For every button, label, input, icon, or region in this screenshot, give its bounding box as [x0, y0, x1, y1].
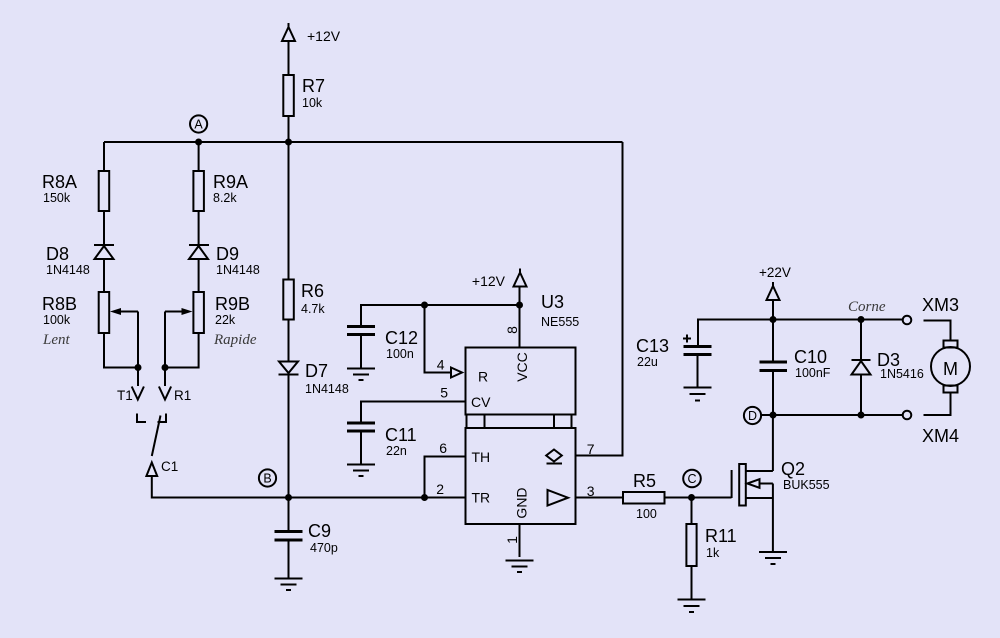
svg-text:D8: D8 — [46, 244, 69, 264]
power +12V (top, above R7) — [282, 23, 341, 44]
resistor R7 10k — [283, 75, 325, 116]
U3 lower body — [466, 428, 576, 524]
svg-text:VCC: VCC — [514, 352, 530, 382]
wire R8B wiper down — [137, 312, 139, 368]
svg-text:B: B — [263, 472, 271, 486]
wire +12V to R7 — [288, 41, 290, 75]
svg-text:8.2k: 8.2k — [213, 191, 237, 205]
wire to T1 — [137, 368, 139, 387]
svg-text:100nF: 100nF — [795, 366, 831, 380]
wire R9A to D9 — [198, 211, 200, 245]
terminal XM3 — [903, 295, 959, 324]
svg-text:Q2: Q2 — [781, 459, 805, 479]
wire pin5 CV — [361, 402, 466, 423]
wire pin3 to R5 — [576, 497, 624, 499]
terminal XM4 — [903, 411, 959, 446]
node D — [744, 407, 761, 424]
op-amp U3 NE555 upper body — [466, 292, 580, 415]
pin 4 arrow — [451, 368, 462, 378]
svg-text:D9: D9 — [216, 244, 239, 264]
connector T1 — [117, 387, 144, 404]
transistor Q2 BUK555 — [732, 459, 830, 506]
svg-text:2: 2 — [436, 481, 444, 497]
wire R8A to D8 — [103, 211, 105, 245]
svg-text:R6: R6 — [301, 281, 324, 301]
svg-text:R7: R7 — [302, 76, 325, 96]
junction (TH to TR) — [421, 494, 428, 501]
wire rail to R6 — [288, 142, 290, 280]
svg-text:1N4148: 1N4148 — [305, 382, 349, 396]
svg-text:T1: T1 — [117, 388, 133, 403]
svg-text:100k: 100k — [43, 313, 71, 327]
wire pin8 VCC — [519, 287, 521, 348]
svg-text:D: D — [748, 409, 757, 423]
junction (D3 bottom) — [858, 412, 865, 419]
svg-text:1k: 1k — [706, 546, 720, 560]
U3 output triangle — [548, 490, 569, 506]
svg-text:TH: TH — [472, 449, 491, 465]
power +12V (U3) — [472, 269, 527, 290]
svg-text:1N4148: 1N4148 — [46, 263, 90, 277]
diode D8 1N4148 — [46, 244, 114, 277]
svg-text:U3: U3 — [541, 292, 564, 312]
ground (C12) — [347, 369, 375, 381]
svg-text:R9B: R9B — [215, 294, 250, 314]
wire motor to XM4 — [924, 393, 951, 416]
potentiometer R9B 22k Rapide — [165, 292, 257, 348]
connector C1 — [146, 459, 178, 476]
junction (VCC) — [516, 302, 523, 309]
wire rail to R8A — [103, 142, 105, 171]
svg-text:100: 100 — [636, 507, 657, 521]
svg-text:22u: 22u — [637, 355, 658, 369]
junction (node A rail) — [195, 139, 202, 146]
junction (Q2 drain) — [770, 412, 777, 419]
switch C1 lever — [152, 416, 161, 457]
U3 body necks — [467, 415, 572, 429]
svg-text:100n: 100n — [386, 347, 414, 361]
wire +22V rail — [698, 320, 903, 346]
wire R9B wiper down — [164, 312, 166, 368]
resistor R8A 150k — [42, 171, 109, 211]
potentiometer R8B 100k Lent — [42, 292, 138, 348]
wire node C to R11 — [691, 498, 693, 525]
svg-text:R: R — [478, 369, 488, 385]
wire D7 to node B rail — [288, 375, 290, 498]
svg-text:5: 5 — [440, 385, 448, 401]
svg-text:Rapide: Rapide — [213, 332, 257, 348]
svg-text:C10: C10 — [794, 347, 827, 367]
svg-text:R5: R5 — [633, 471, 656, 491]
capacitor C9 470p — [275, 521, 338, 555]
diode D9 1N4148 — [189, 244, 260, 277]
svg-text:+12V: +12V — [472, 273, 506, 289]
wire R5 to Q2 gate — [665, 497, 732, 499]
wire C11 to ground — [360, 432, 362, 464]
junction (D3 top) — [858, 316, 865, 323]
wire R11 to ground — [691, 566, 693, 599]
svg-text:1N4148: 1N4148 — [216, 263, 260, 277]
svg-text:Lent: Lent — [42, 332, 71, 348]
wire XM3 to motor — [924, 321, 951, 341]
svg-text:R8B: R8B — [42, 294, 77, 314]
svg-text:10k: 10k — [302, 96, 323, 110]
svg-text:Corne: Corne — [848, 299, 886, 315]
svg-text:A: A — [194, 118, 203, 132]
junction (node B) — [285, 494, 292, 501]
svg-text:R9A: R9A — [213, 172, 248, 192]
svg-text:22n: 22n — [386, 444, 407, 458]
wire pin4 reset — [425, 305, 451, 373]
svg-text:470p: 470p — [310, 541, 338, 555]
wire R9B bottom — [165, 333, 199, 368]
node B — [259, 469, 276, 486]
wire R7 to rail — [288, 116, 290, 142]
svg-text:1: 1 — [504, 536, 520, 544]
diode D7 1N4148 — [279, 361, 349, 396]
node A — [190, 115, 207, 132]
connector R1 — [159, 387, 191, 404]
svg-text:C13: C13 — [636, 336, 669, 356]
svg-text:22k: 22k — [215, 313, 236, 327]
wire pin1 GND — [519, 524, 521, 557]
wire Q2 source to ground — [772, 484, 774, 552]
svg-text:R1: R1 — [174, 388, 191, 403]
svg-text:TR: TR — [472, 490, 491, 506]
wire D8 to R8B — [103, 259, 105, 292]
resistor R11 1k — [686, 524, 736, 566]
svg-text:R8A: R8A — [42, 172, 77, 192]
ground (C11) — [347, 465, 375, 477]
svg-text:8: 8 — [504, 326, 520, 334]
svg-text:4.7k: 4.7k — [301, 302, 325, 316]
svg-text:7: 7 — [587, 441, 595, 457]
junction (R9B wiper join) — [162, 364, 169, 371]
wire C12 to ground — [360, 336, 362, 369]
svg-text:150k: 150k — [43, 191, 71, 205]
wire node D rail — [761, 414, 903, 416]
svg-text:+22V: +22V — [759, 265, 791, 280]
svg-text:C9: C9 — [308, 521, 331, 541]
svg-text:NE555: NE555 — [541, 315, 579, 329]
svg-text:6: 6 — [439, 440, 447, 456]
ground (C13) — [684, 388, 712, 401]
svg-text:1N5416: 1N5416 — [880, 367, 924, 381]
ground (C9) — [275, 579, 303, 591]
svg-text:C12: C12 — [385, 328, 418, 348]
wire R8B bottom — [104, 333, 138, 368]
wire C1 down to node B rail — [152, 476, 466, 498]
wire D9 to R9B — [198, 259, 200, 292]
svg-text:CV: CV — [471, 394, 491, 410]
svg-text:BUK555: BUK555 — [783, 478, 830, 492]
resistor R9A 8.2k — [193, 171, 248, 211]
capacitor C10 100nF — [760, 320, 831, 415]
switch C1 contacts — [137, 414, 166, 423]
wire node B to C9 — [288, 498, 290, 532]
svg-text:M: M — [943, 359, 958, 379]
junction (R7 rail) — [285, 139, 292, 146]
svg-text:C: C — [687, 472, 696, 486]
junction (pin4 branch) — [421, 302, 428, 309]
ground (U3) — [506, 561, 534, 573]
ground (R11) — [678, 600, 706, 613]
resistor R5 100 — [623, 471, 665, 521]
wire Q2 drain up — [772, 415, 774, 472]
capacitor C12 100n — [347, 327, 418, 362]
wire riser to pin7 — [576, 142, 623, 456]
svg-text:R11: R11 — [705, 526, 737, 546]
wire pin6 TH — [425, 457, 466, 498]
svg-text:4: 4 — [437, 357, 445, 373]
svg-text:C11: C11 — [385, 425, 417, 445]
svg-text:XM3: XM3 — [922, 295, 959, 315]
wire rail to R9A — [198, 142, 200, 171]
svg-text:+12V: +12V — [307, 28, 341, 44]
wire C9 to ground — [288, 541, 290, 578]
U3 discharge diamond — [546, 450, 562, 464]
svg-text:D7: D7 — [305, 361, 328, 381]
wire top rail — [104, 141, 623, 143]
motor M — [931, 341, 970, 393]
resistor R6 4.7k — [283, 280, 325, 320]
svg-text:GND: GND — [514, 487, 530, 518]
power +22V — [759, 265, 791, 300]
junction (C10 top) — [770, 316, 777, 323]
svg-text:C1: C1 — [161, 459, 178, 474]
junction (R8B wiper join) — [135, 364, 142, 371]
ground (Q2) — [759, 552, 787, 564]
node C — [683, 470, 701, 488]
wire to R1 — [164, 368, 166, 387]
svg-text:XM4: XM4 — [922, 426, 959, 446]
wire C12 top to VCC — [361, 305, 520, 326]
capacitor C13 22u — [636, 335, 712, 370]
diode D3 1N5416 — [852, 320, 924, 415]
capacitor C11 22n — [347, 423, 417, 458]
wire C13 to ground — [697, 356, 699, 387]
wire +22V to rail — [772, 300, 774, 320]
junction (node C) — [688, 494, 695, 501]
wire R6 to D7 — [288, 320, 290, 362]
